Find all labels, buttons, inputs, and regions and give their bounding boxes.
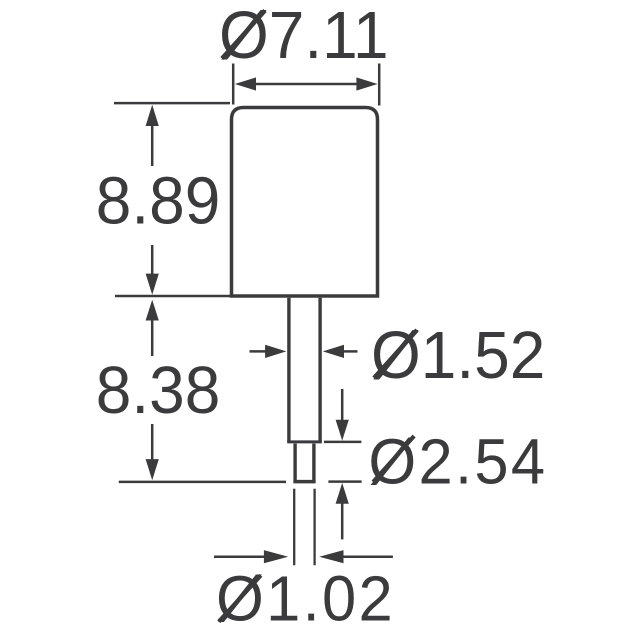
- extension line at body bottom going left (for 8.89 / 8.38): [115, 295, 230, 298]
- dimension line 8.89 (vertical, two segments with arrows): [151, 125, 154, 166]
- lead pin lines (Ø1.02): [293, 489, 295, 566]
- svg-text:Ø2.54: Ø2.54: [368, 426, 547, 497]
- slash extension of O1.52 diameter symbol: [374, 330, 417, 378]
- Ø1.02 left arrow: [214, 555, 265, 558]
- extension line left of Ø7.11 dimension: [232, 64, 235, 105]
- dimension line 8.38 (vertical, two segments with arrows): [151, 320, 154, 357]
- collar bottom line: [293, 480, 315, 483]
- collar outline (Ø2.54 section): [295, 444, 314, 482]
- shaft left line (Ø1.52 section): [287, 298, 290, 442]
- Ø1.52 left arrow: [250, 350, 267, 353]
- Ø2.54 down arrow: [341, 389, 344, 421]
- body outline (main cylinder, rounded top corners): [232, 108, 378, 297]
- svg-text:8.38: 8.38: [96, 353, 221, 427]
- extension line right of Ø7.11 dimension: [378, 64, 381, 106]
- extension line at body top (for 8.89): [114, 102, 230, 105]
- slash extension of O1.02 diameter symbol: [219, 575, 261, 621]
- Ø1.02 right arrow: [344, 555, 393, 558]
- extension line at pin top level going left (for 8.38): [119, 481, 286, 484]
- dimension line Ø7.11 with double arrowheads: [252, 83, 360, 86]
- Ø2.54 up arrow: [336, 483, 349, 504]
- slash extension of O7.11 diameter symbol: [222, 11, 265, 59]
- Ø2.54 lower tick: [328, 480, 361, 483]
- svg-text:8.89: 8.89: [96, 164, 221, 238]
- Ø2.54 upper tick: [324, 441, 362, 444]
- slash extension of O2.54 diameter symbol: [373, 436, 414, 482]
- shaft bottom shoulder: [287, 440, 322, 443]
- Ø1.52 right arrow: [344, 350, 358, 353]
- shaft right line: [318, 298, 321, 442]
- svg-text:Ø1.02: Ø1.02: [216, 563, 395, 634]
